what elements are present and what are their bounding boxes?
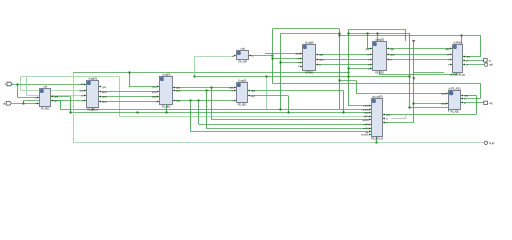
wire feedback to U2 xyxy=(21,90,84,92)
wire U5 out xyxy=(248,55,273,57)
wire feedback loop right drop xyxy=(119,77,121,117)
wire U3 feed from top bus xyxy=(129,72,131,87)
junction j x461.5 y35.5 xyxy=(461,35,463,37)
wire feedback loop top xyxy=(21,76,120,78)
junction j x339 y33.3 xyxy=(339,33,341,35)
junction j x190.7 y100.6 xyxy=(190,100,192,102)
wire v413 xyxy=(413,41,415,123)
wire vert x73.5 xyxy=(73,72,75,143)
wire h74.7 xyxy=(380,74,458,76)
svg-text:t_v[3:0]: t_v[3:0] xyxy=(363,112,369,115)
wire v356 drop xyxy=(356,81,358,94)
wire v405 dangle xyxy=(405,30,407,42)
junction j x377 y142.8 xyxy=(376,142,378,144)
wire fb into U8 rpin1 xyxy=(463,56,481,58)
junction j x129 y72.3 xyxy=(129,72,131,74)
wire fan h128 xyxy=(206,128,369,130)
wire branch x26.7 xyxy=(26,77,28,96)
svg-text:RTL_REG: RTL_REG xyxy=(41,109,50,111)
wire branch to U9 lpin1 xyxy=(356,93,446,95)
output port o1 xyxy=(484,59,492,63)
wire h80.6 xyxy=(340,80,357,82)
wire h29.5 xyxy=(348,29,406,31)
wire U8 to o2 xyxy=(466,64,485,66)
wire to U3 pin1 xyxy=(129,86,157,88)
wire U8 to o1 xyxy=(466,60,484,62)
wire bus y109.3 to U10 xyxy=(60,109,369,111)
svg-text:en_i[1:0]: en_i[1:0] xyxy=(363,128,369,130)
wire U7 bpin drop xyxy=(379,71,381,75)
junction j x339 y35.5 xyxy=(339,35,341,37)
svg-text:RTL_REG_AS: RTL_REG_AS xyxy=(371,138,384,141)
junction j x343 y112.7 xyxy=(343,112,345,114)
output port o3 xyxy=(484,101,494,105)
svg-text:out_r: out_r xyxy=(489,102,493,105)
svg-text:axi_d[7:0]: axi_d[7:0] xyxy=(362,109,369,111)
svg-text:r1_reg[7:0]: r1_reg[7:0] xyxy=(162,73,170,76)
wire U9 bpin xyxy=(448,108,450,110)
gray stub xyxy=(391,115,406,119)
junction j x348 y33.3 xyxy=(348,33,350,35)
wire U3 bottom pin drop xyxy=(166,105,168,113)
wire U1 out2 xyxy=(53,100,60,102)
wire stub U6 pin1 xyxy=(265,53,301,55)
wire fan h119.8 xyxy=(212,119,369,121)
wire fan h131.8 xyxy=(191,131,369,133)
wire U1 out1 xyxy=(53,96,70,98)
wire into U10 pin1 xyxy=(348,105,369,107)
junction j x409 y76.4 xyxy=(409,76,411,78)
svg-text:RTL_REG: RTL_REG xyxy=(162,107,171,109)
wire U2q1-U3 xyxy=(101,91,157,93)
svg-text:RTL_REG: RTL_REG xyxy=(375,73,384,75)
wire U1 out2 drop xyxy=(60,101,62,109)
wire v343 drop xyxy=(343,91,345,113)
junction j x166 y112.7 xyxy=(166,112,168,114)
wire net_b to U2 clk xyxy=(24,100,84,102)
module U1 xyxy=(35,86,59,110)
junction j x348 y72.3 xyxy=(348,72,350,74)
wire top h33.3 xyxy=(281,33,340,35)
wire U7-U8 a xyxy=(389,48,451,50)
svg-text:u0_RTLROM_rom: u0_RTLROM_rom xyxy=(450,74,465,77)
wire to U9 bottom xyxy=(410,107,449,109)
wire fan v206 xyxy=(206,90,208,128)
svg-text:r0_reg[7:0]: r0_reg[7:0] xyxy=(89,77,97,80)
wire U2 bottom pin drop xyxy=(92,108,94,110)
wire U9 to o3 xyxy=(463,102,484,104)
wire fan v211 xyxy=(211,87,213,120)
svg-text:r2_reg[3:0]: r2_reg[3:0] xyxy=(238,79,246,82)
wire into U9 rpin1 xyxy=(463,95,476,97)
svg-text:u0_RTL_ADD_i: u0_RTL_ADD_i xyxy=(448,87,461,90)
junction j x137 y112.7 xyxy=(137,112,139,114)
module U5 xyxy=(232,47,254,63)
input port b xyxy=(3,102,11,106)
wire U8 bpin rise xyxy=(456,73,458,75)
module U9 xyxy=(441,87,468,113)
junction j x281 y109.3 xyxy=(280,109,282,111)
wire U6 bottom drop xyxy=(308,71,310,72)
wire h72.6 right xyxy=(414,72,444,74)
wire v194 to mid bus xyxy=(194,56,196,76)
wire long y83.5 xyxy=(273,83,481,85)
dangling arrow xyxy=(412,77,415,80)
svg-text:WCLKRK: WCLKRK xyxy=(361,135,369,137)
wire drop to U8 top xyxy=(461,36,463,45)
wire fan v199 xyxy=(198,101,200,125)
module U8 xyxy=(445,41,470,76)
module U2 xyxy=(79,77,107,111)
wire U3-U4 d2 xyxy=(175,90,234,92)
wire U4 q2 xyxy=(250,95,288,97)
junction j x194 y76.4 xyxy=(194,76,196,78)
wire mid bus y76.4 xyxy=(195,76,410,78)
svg-text:RTL_REG: RTL_REG xyxy=(305,73,314,75)
wire net_b jog up xyxy=(23,100,25,103)
wire net_a to U1 pin xyxy=(18,97,37,99)
wire U10 q1 long xyxy=(385,114,476,116)
module U7 xyxy=(365,38,395,74)
junction j x413 y103.7 xyxy=(413,103,415,105)
junction j x281 y62.3 xyxy=(280,62,282,64)
wire drop to U7 pin1 xyxy=(367,33,369,49)
wire branch to U6 pin3 xyxy=(281,62,301,64)
module U10 xyxy=(361,95,391,140)
wire top h28.8 xyxy=(273,28,340,30)
wire fb to U8 top right xyxy=(340,35,481,37)
wire net_a from port a xyxy=(12,84,84,86)
svg-text:c0_reg[3:0]: c0_reg[3:0] xyxy=(305,41,314,44)
junction j x348 y68.8 xyxy=(348,68,350,70)
wire to U9 lpin2 xyxy=(414,103,446,105)
wire branch U7 lowpin xyxy=(348,68,371,70)
svg-text:RTL_REG: RTL_REG xyxy=(238,105,247,107)
input port a xyxy=(5,82,12,86)
wire net_b from port b xyxy=(12,103,37,105)
wire U10 bottom drop xyxy=(376,137,378,143)
svg-text:c1_reg[3:0]: c1_reg[3:0] xyxy=(375,38,384,41)
wire v281 xyxy=(280,33,282,109)
wire into U7 pin1 xyxy=(367,48,370,50)
wire fan h124.2 xyxy=(199,124,369,126)
svg-text:RTL_ADD: RTL_ADD xyxy=(450,111,459,114)
wire v339 xyxy=(339,29,341,110)
wire branch to U2 pin3 xyxy=(27,95,84,97)
wire net_a drop to U1 xyxy=(17,84,19,97)
junction j x272 y58.6 xyxy=(272,58,274,60)
wire U2q2-U3 xyxy=(101,96,157,98)
wire to U5 in xyxy=(195,56,234,58)
junction j x409 y107.9 xyxy=(409,107,411,109)
junction j x70 y112 xyxy=(70,112,72,114)
junction b-junction xyxy=(23,103,25,105)
junction j x266 y76.4 xyxy=(266,76,268,78)
output port o4 xyxy=(484,141,495,145)
wire v266 xyxy=(266,76,268,109)
wire v348 xyxy=(348,30,350,106)
wire U3-U4 d3 xyxy=(175,100,234,102)
wire v476 xyxy=(476,96,478,115)
junction j x206 y90.4 xyxy=(206,90,208,92)
svg-text:out_r_reg[7:0]: out_r_reg[7:0] xyxy=(372,95,383,98)
junction a-junction xyxy=(17,84,19,86)
wire bus y112.7 to U10 xyxy=(70,112,369,114)
wire feedback to U10 pin4 xyxy=(120,116,369,118)
wire drop x288 xyxy=(288,96,290,113)
module U6 xyxy=(295,41,324,74)
junction j x199 y100.6 xyxy=(198,100,200,102)
wire U3-U4 d1 xyxy=(175,87,234,89)
wire feedback loop left xyxy=(20,77,22,91)
wire U6-U7 b xyxy=(318,59,371,61)
junction j x339 y80.6 xyxy=(339,80,341,82)
module U3 xyxy=(152,73,181,108)
svg-text:i_shf: i_shf xyxy=(43,86,48,88)
wire branch to U6 pin2 xyxy=(273,58,301,60)
dangling tick top xyxy=(412,40,415,41)
wire h33.3b xyxy=(348,33,410,35)
wire v272 xyxy=(272,29,274,84)
junction j x348 y76.4 xyxy=(348,76,350,78)
svg-text:RTL_XOR: RTL_XOR xyxy=(238,62,247,64)
wire U7-U8 b xyxy=(389,54,451,56)
svg-text:ax_b[3:0]: ax_b[3:0] xyxy=(362,120,369,122)
wire U7-U8 c xyxy=(389,59,451,61)
wire U10 q3 to x413 xyxy=(385,122,413,124)
wire top bus y72.3 xyxy=(74,72,349,74)
wire U2q3-U3 xyxy=(101,101,157,103)
wire U6-U7 a xyxy=(318,54,371,56)
junction j x367.4 y33.3 xyxy=(367,33,369,35)
wire U1 out1 drop xyxy=(70,97,72,113)
wire bottom long wire to port xyxy=(74,142,484,144)
wire into U9 rpin2 xyxy=(463,98,480,100)
wire fan v190 xyxy=(190,101,192,132)
wire drop to U7 top xyxy=(377,33,379,41)
output port o2 xyxy=(484,63,493,67)
wire v409 xyxy=(409,33,411,108)
junction j x93 y109.3 xyxy=(92,109,94,111)
module U4 xyxy=(229,79,255,106)
svg-text:s_d[1:0]: s_d[1:0] xyxy=(363,124,369,126)
svg-text:s_a[7:0]: s_a[7:0] xyxy=(363,105,369,107)
junction j x272 y55.8 xyxy=(272,55,274,57)
wire U4 q1 long xyxy=(250,90,343,92)
junction j x288 y112.7 xyxy=(288,112,290,114)
wire drop x480.7 xyxy=(480,84,482,99)
wire fb drop x480.8 xyxy=(480,36,482,57)
wire U6-U7 c xyxy=(318,64,371,66)
junction j x211.5 y87.3 xyxy=(211,87,213,89)
junction j x377.8 y33.3 xyxy=(377,33,379,35)
